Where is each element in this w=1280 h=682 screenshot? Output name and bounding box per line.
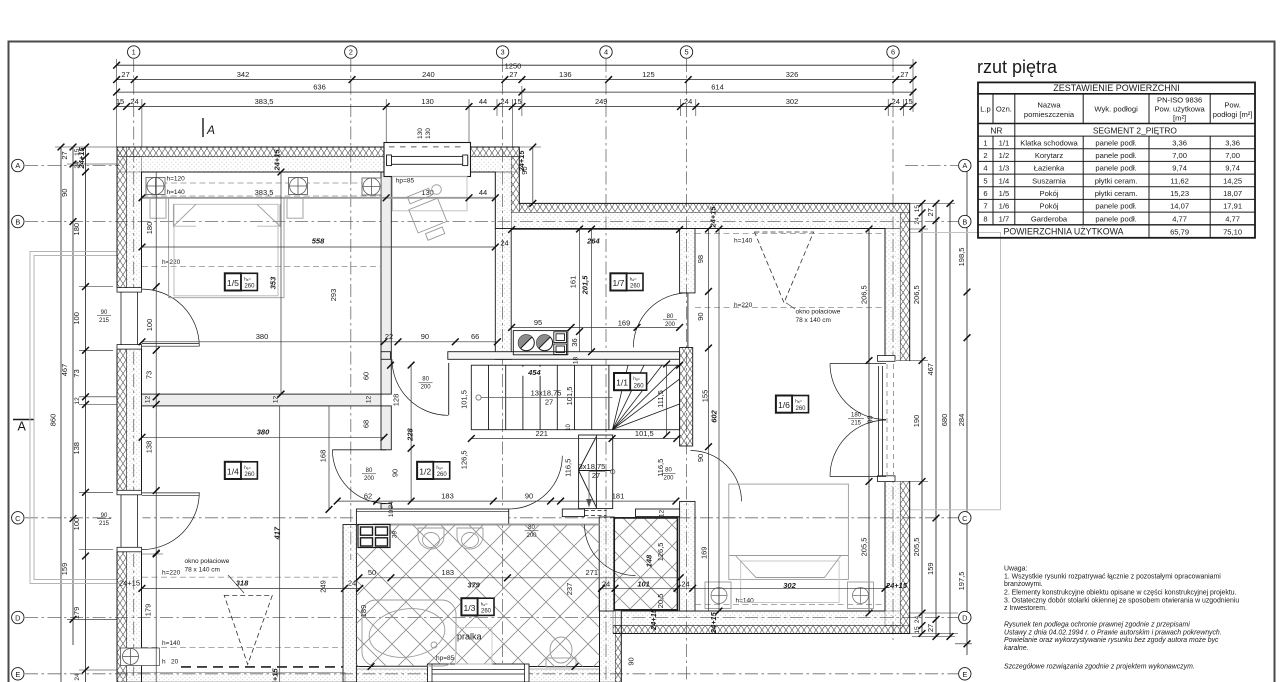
duct shaft (358, 525, 390, 548)
svg-text:180: 180 (145, 222, 154, 235)
svg-text:14,25: 14,25 (1223, 176, 1242, 185)
svg-text:rzut piętra: rzut piętra (977, 57, 1058, 77)
window W1 top wall (384, 128, 471, 211)
svg-text:1/7: 1/7 (613, 278, 625, 288)
svg-text:D: D (15, 614, 20, 623)
step wall insulation (511, 157, 519, 213)
washbasin counter room 1/7 (513, 331, 568, 355)
svg-text:E: E (962, 670, 967, 679)
svg-text:Klatka schodowa: Klatka schodowa (1020, 138, 1078, 147)
svg-text:78 x 140 cm: 78 x 140 cm (796, 317, 831, 324)
mid vertical wall below bathroom insulation (615, 626, 621, 682)
svg-text:159: 159 (926, 562, 935, 575)
svg-text:383,5: 383,5 (255, 97, 274, 106)
svg-text:27: 27 (121, 70, 129, 79)
exterior wall left insulation (117, 147, 127, 682)
svg-text:180: 180 (851, 413, 862, 419)
tile edge line bathroom top (373, 524, 599, 526)
grid bubbles top (128, 46, 900, 58)
svg-text:12: 12 (659, 510, 666, 518)
svg-text:200: 200 (665, 322, 676, 328)
svg-text:342: 342 (237, 70, 250, 79)
svg-text:panele podł.: panele podł. (1095, 138, 1136, 147)
svg-text:10: 10 (388, 510, 395, 518)
interior wall 1/5-1/4 (142, 394, 382, 406)
svg-text:NR: NR (990, 125, 1002, 135)
svg-text:9,74: 9,74 (1172, 164, 1187, 173)
toilet (546, 637, 576, 667)
svg-text:3. Ostateczny dobór stolarki o: 3. Ostateczny dobór stolarki okiennej ze… (1004, 597, 1239, 604)
svg-text:1/2: 1/2 (419, 467, 431, 477)
svg-text:24+15: 24+15 (272, 149, 281, 172)
interior dimension lines (142, 147, 885, 682)
grid line 2 (350, 59, 352, 560)
svg-text:h=140: h=140 (734, 238, 753, 245)
svg-text:Powielanie oraz wykorzystywani: Powielanie oraz wykorzystywanie rysunku … (1004, 637, 1219, 644)
svg-text:228: 228 (406, 428, 415, 442)
svg-text:24+15: 24+15 (649, 608, 658, 631)
interior wall 1/7-corridor left part (381, 352, 391, 360)
svg-text:260: 260 (437, 472, 448, 478)
svg-text:66: 66 (471, 332, 479, 341)
svg-text:130: 130 (421, 97, 434, 106)
svg-text:Suszarnia: Suszarnia (1032, 176, 1067, 185)
svg-text:17,91: 17,91 (1223, 202, 1242, 211)
svg-text:24: 24 (684, 97, 692, 106)
svg-text:13x18,75: 13x18,75 (531, 389, 562, 398)
stair walk line with arrow (476, 395, 615, 502)
area summary table (978, 82, 1255, 237)
svg-text:24+15: 24+15 (709, 611, 718, 634)
svg-text:36: 36 (570, 338, 579, 346)
svg-text:Ozn.: Ozn. (996, 105, 1012, 114)
svg-text:215: 215 (99, 521, 110, 527)
svg-text:karalne.: karalne. (1004, 645, 1029, 652)
svg-text:18: 18 (573, 357, 580, 365)
exterior wall left masonry (127, 157, 142, 682)
svg-text:24: 24 (914, 616, 921, 624)
svg-text:180: 180 (72, 223, 81, 236)
svg-text:pomieszczenia: pomieszczenia (1024, 110, 1075, 119)
column marker bottom-left (121, 648, 160, 666)
dashed height lines room 1/6 (695, 234, 885, 605)
staircase main flight (471, 365, 679, 430)
svg-text:1: 1 (132, 48, 136, 57)
grid line 6 (892, 59, 894, 640)
svg-text:15: 15 (914, 626, 921, 634)
svg-text:panele podł.: panele podł. (1095, 202, 1136, 211)
door size labels (364, 314, 862, 539)
svg-text:90: 90 (868, 416, 875, 424)
svg-text:380: 380 (257, 428, 270, 437)
svg-text:237: 237 (565, 583, 574, 596)
svg-text:271: 271 (586, 568, 599, 577)
svg-text:73: 73 (145, 371, 154, 379)
svg-text:200: 200 (663, 476, 674, 482)
svg-text:205,5: 205,5 (912, 538, 921, 557)
svg-text:1250: 1250 (505, 61, 522, 70)
svg-text:6: 6 (891, 48, 895, 57)
svg-text:pralka: pralka (457, 632, 482, 642)
svg-text:200: 200 (364, 476, 375, 482)
balcony door leaves and arcs (830, 363, 886, 365)
svg-text:24: 24 (500, 239, 508, 248)
roof window label 1/6 (786, 303, 795, 309)
svg-text:138: 138 (145, 441, 154, 454)
svg-text:100: 100 (145, 319, 154, 332)
svg-text:24: 24 (892, 97, 900, 106)
svg-text:A: A (15, 161, 20, 170)
svg-text:90: 90 (101, 513, 108, 519)
svg-text:190: 190 (912, 415, 921, 428)
svg-text:260: 260 (634, 383, 645, 389)
svg-text:hₐ=: hₐ= (795, 399, 802, 404)
interior wall stub below (381, 406, 391, 450)
svg-text:27: 27 (592, 471, 600, 480)
svg-text:128: 128 (391, 394, 400, 407)
svg-text:90: 90 (520, 166, 529, 174)
door D4 (corridor to bathroom wall) arc (509, 456, 562, 509)
svg-text:73: 73 (72, 369, 81, 377)
svg-text:2. Elementy konstrukcyjne obie: 2. Elementy konstrukcyjne obiektu opisan… (1004, 590, 1237, 597)
svg-text:20,5: 20,5 (656, 594, 665, 609)
door D9 (to bathroom) arc (585, 511, 636, 576)
section marker A left (13, 419, 34, 421)
svg-text:125: 125 (642, 70, 655, 79)
svg-text:602: 602 (710, 409, 719, 422)
svg-text:4: 4 (604, 48, 608, 57)
svg-text:148: 148 (645, 554, 654, 567)
svg-text:260: 260 (481, 609, 492, 615)
svg-text:27: 27 (926, 208, 935, 216)
svg-text:9,74: 9,74 (1225, 164, 1240, 173)
svg-text:C: C (962, 514, 968, 523)
svg-text:h 20: h 20 (162, 659, 179, 666)
svg-text:B: B (15, 218, 20, 227)
svg-text:380: 380 (256, 332, 269, 341)
svg-text:200: 200 (526, 533, 537, 539)
bathroom bottom wall masonry (356, 669, 599, 682)
svg-text:Korytarz: Korytarz (1035, 151, 1063, 160)
grid line 1 (133, 59, 135, 676)
svg-text:E: E (15, 670, 20, 679)
svg-text:206,5: 206,5 (912, 285, 921, 304)
interior wall left of 1/7 (495, 229, 511, 360)
svg-text:POWIERZCHNIA UŻYTKOWA: POWIERZCHNIA UŻYTKOWA (1004, 226, 1124, 236)
svg-text:27: 27 (900, 70, 908, 79)
svg-text:130: 130 (425, 128, 432, 139)
svg-text:12: 12 (365, 396, 372, 404)
svg-text:126,5: 126,5 (459, 450, 468, 469)
svg-text:h=120: h=120 (167, 176, 186, 183)
svg-text:24: 24 (602, 580, 610, 589)
grid bubbles left (12, 159, 24, 680)
svg-text:podłogi [m²]: podłogi [m²] (1213, 110, 1253, 119)
svg-text:111,5: 111,5 (656, 390, 665, 408)
svg-text:353: 353 (269, 276, 278, 289)
svg-text:z Inwestorem.: z Inwestorem. (1004, 605, 1047, 612)
bottom-left wall band masonry (117, 673, 345, 682)
svg-text:Wyk. podłogi: Wyk. podłogi (1094, 105, 1138, 114)
svg-text:okno połaciowe: okno połaciowe (796, 309, 841, 316)
svg-text:467: 467 (926, 363, 935, 376)
svg-text:płytki ceram.: płytki ceram. (1095, 189, 1138, 198)
svg-text:hₐ=: hₐ= (630, 277, 637, 282)
dashed height lines room 1/4 (142, 577, 343, 647)
svg-text:249: 249 (319, 580, 328, 593)
svg-text:6: 6 (983, 189, 987, 198)
svg-text:198,5: 198,5 (957, 248, 966, 267)
svg-text:80: 80 (667, 314, 674, 320)
svg-text:264: 264 (586, 237, 600, 246)
svg-text:3,36: 3,36 (1225, 138, 1240, 147)
svg-text:2: 2 (349, 48, 353, 57)
svg-text:14,07: 14,07 (1170, 202, 1189, 211)
svg-text:201,5: 201,5 (581, 275, 590, 296)
roof outline grey right (910, 233, 1001, 510)
svg-text:260: 260 (244, 284, 255, 290)
svg-text:90: 90 (60, 189, 69, 197)
top chain ticks (113, 62, 916, 110)
svg-text:Uwaga:: Uwaga: (1004, 566, 1027, 573)
svg-text:hₐ=: hₐ= (633, 376, 640, 381)
svg-text:11,62: 11,62 (1170, 176, 1188, 185)
svg-text:24: 24 (681, 580, 689, 589)
svg-text:Garderoba: Garderoba (1031, 214, 1068, 223)
svg-text:860: 860 (49, 414, 58, 427)
svg-text:75,10: 75,10 (1223, 227, 1242, 236)
svg-text:90: 90 (391, 469, 400, 477)
svg-text:260: 260 (244, 472, 255, 478)
grid line D (25, 617, 958, 619)
shower zone tiles (614, 518, 677, 610)
svg-text:12: 12 (273, 396, 280, 404)
svg-text:215: 215 (851, 421, 862, 427)
svg-text:302: 302 (783, 581, 796, 590)
svg-text:90: 90 (421, 332, 429, 341)
top extension lines (117, 59, 913, 147)
svg-text:[m²]: [m²] (1173, 114, 1186, 123)
svg-text:hₐ=: hₐ= (244, 465, 251, 470)
stair dim line 111,5 (663, 361, 670, 439)
window in bathroom bottom wall (428, 664, 530, 682)
svg-text:panele podł.: panele podł. (1095, 164, 1136, 173)
svg-text:24: 24 (914, 217, 921, 225)
left dimension chains (61, 147, 86, 682)
door D7 (1/7 to 1/6) (633, 293, 688, 348)
svg-text:116,5: 116,5 (656, 459, 665, 477)
svg-text:155: 155 (701, 390, 710, 403)
roof outline grey left (30, 252, 117, 584)
svg-text:24+15: 24+15 (77, 147, 86, 170)
svg-text:10: 10 (566, 423, 572, 430)
svg-text:90: 90 (101, 310, 108, 316)
svg-text:215: 215 (99, 318, 110, 324)
svg-text:7: 7 (983, 202, 987, 211)
svg-text:101,5: 101,5 (635, 429, 654, 438)
interior grey dim chain room 1/5 (142, 197, 495, 199)
svg-text:Pow. użytkowa: Pow. użytkowa (1154, 105, 1205, 114)
svg-text:B: B (962, 218, 967, 227)
svg-text:179: 179 (72, 607, 81, 620)
washing machine (456, 628, 493, 665)
svg-text:branżowymi.: branżowymi. (1004, 581, 1043, 588)
top dimension chains (117, 65, 913, 106)
svg-text:206,5: 206,5 (860, 285, 869, 304)
svg-text:1/4: 1/4 (227, 467, 239, 477)
svg-text:138: 138 (72, 442, 81, 455)
svg-text:4,77: 4,77 (1225, 214, 1240, 223)
svg-text:A: A (962, 161, 967, 170)
bed room 1/5 (150, 198, 303, 298)
svg-text:Pokój: Pokój (1040, 189, 1059, 198)
roof window label 1/4 (228, 575, 244, 593)
svg-text:1/2: 1/2 (999, 151, 1010, 160)
svg-text:24: 24 (500, 97, 508, 106)
svg-text:27: 27 (545, 398, 553, 407)
svg-text:467: 467 (60, 364, 69, 377)
svg-text:50: 50 (368, 568, 376, 577)
svg-text:130: 130 (417, 128, 424, 139)
svg-text:1/5: 1/5 (999, 189, 1010, 198)
svg-text:100: 100 (72, 518, 81, 531)
svg-text:1/3: 1/3 (999, 164, 1010, 173)
svg-text:Pow.: Pow. (1224, 101, 1240, 110)
svg-text:636: 636 (313, 82, 326, 91)
svg-text:Pokój: Pokój (1040, 202, 1059, 211)
svg-text:1/6: 1/6 (778, 400, 790, 410)
svg-text:221: 221 (535, 429, 548, 438)
svg-text:90: 90 (696, 312, 705, 320)
interior wall 1/7-corridor right part (448, 352, 680, 360)
top chain labels (116, 61, 913, 106)
right dimension chains (869, 166, 967, 656)
svg-text:78 x 140 cm: 78 x 140 cm (185, 567, 220, 574)
svg-text:189: 189 (359, 605, 368, 618)
svg-text:15: 15 (914, 205, 921, 213)
svg-text:183: 183 (441, 491, 454, 500)
svg-text:168: 168 (319, 450, 328, 463)
svg-text:161: 161 (568, 276, 577, 289)
svg-text:h=220: h=220 (734, 302, 753, 309)
svg-text:39: 39 (392, 531, 399, 539)
svg-text:12: 12 (74, 397, 81, 405)
svg-text:1/1: 1/1 (999, 138, 1010, 147)
svg-text:hp=85: hp=85 (396, 178, 415, 185)
svg-text:A: A (18, 420, 27, 434)
svg-text:1/3: 1/3 (464, 603, 476, 613)
staircase winders fan (613, 365, 680, 429)
staircase lower winder flight (579, 435, 613, 509)
svg-text:159: 159 (60, 563, 69, 576)
svg-text:h=220: h=220 (162, 259, 181, 266)
grid line 5 (686, 59, 688, 682)
svg-text:27: 27 (60, 151, 69, 159)
svg-text:3x18,75: 3x18,75 (579, 462, 606, 471)
svg-text:1/7: 1/7 (999, 214, 1010, 223)
bottom wall room 1/6 insulation (613, 626, 910, 634)
svg-text:24: 24 (130, 97, 138, 106)
svg-text:65,79: 65,79 (1170, 227, 1189, 236)
svg-text:panele podł.: panele podł. (1095, 214, 1136, 223)
svg-text:15: 15 (116, 97, 124, 106)
svg-text:15,23: 15,23 (1170, 189, 1189, 198)
svg-text:24+15: 24+15 (708, 206, 717, 229)
interior wall stair-1/6 masonry lower (680, 501, 695, 611)
svg-text:1/1: 1/1 (616, 378, 628, 388)
svg-text:3: 3 (501, 48, 505, 57)
svg-text:1: 1 (983, 138, 987, 147)
svg-text:SEGMENT 2_PIĘTRO: SEGMENT 2_PIĘTRO (1093, 125, 1178, 135)
svg-text:hp=85: hp=85 (436, 655, 455, 662)
svg-text:98: 98 (696, 255, 705, 263)
svg-text:169: 169 (618, 319, 631, 328)
svg-text:80: 80 (528, 525, 535, 531)
svg-text:183: 183 (442, 568, 455, 577)
svg-text:284: 284 (957, 414, 966, 427)
svg-text:95: 95 (534, 318, 542, 327)
svg-text:249: 249 (595, 97, 608, 106)
svg-text:197,5: 197,5 (957, 572, 966, 591)
step wall masonry (495, 172, 511, 229)
bathtub (362, 600, 456, 666)
svg-text:44: 44 (479, 97, 487, 106)
svg-text:24: 24 (74, 673, 81, 681)
interior wall stair-1/6 masonry upper (680, 229, 695, 293)
svg-text:15: 15 (513, 97, 521, 106)
svg-text:1/6: 1/6 (999, 202, 1010, 211)
svg-text:18,07: 18,07 (1223, 189, 1242, 198)
svg-text:62: 62 (364, 491, 372, 500)
svg-text:90: 90 (525, 491, 533, 500)
interior wall stair-1/6 insulated middle (680, 348, 693, 447)
svg-text:136: 136 (559, 70, 572, 79)
balcony door right wall 180/215 (830, 356, 911, 482)
grid line A (25, 165, 120, 167)
svg-text:3,36: 3,36 (1172, 138, 1187, 147)
bottom wall room 1/6 masonry (613, 611, 900, 626)
grid line B (25, 221, 958, 223)
interior wall bathroom-shower zone (599, 517, 614, 611)
svg-text:169: 169 (700, 547, 709, 560)
svg-text:200: 200 (421, 385, 432, 391)
exterior wall top A insulation (117, 147, 519, 157)
interior wall 1/4-bathroom (343, 525, 356, 682)
svg-text:Szczegółowe rozwiązania zgodni: Szczegółowe rozwiązania zgodnie z projek… (1004, 664, 1195, 671)
door D2 opening left wall (113, 490, 199, 552)
svg-text:PN-ISO 9836: PN-ISO 9836 (1157, 96, 1202, 105)
svg-text:1. Wszystkie rysunki rozpatryw: 1. Wszystkie rysunki rozpatrywać łącznie… (1004, 573, 1221, 580)
door D6 (corridor to 1/7) arc (392, 359, 449, 415)
svg-text:5: 5 (684, 48, 688, 57)
svg-text:Nazwa: Nazwa (1037, 101, 1061, 110)
svg-text:101,5: 101,5 (565, 387, 574, 406)
roof window triangle room 1/6 (755, 232, 814, 303)
svg-text:1/4: 1/4 (999, 176, 1010, 185)
svg-text:68: 68 (361, 420, 370, 428)
svg-text:panele podł.: panele podł. (1095, 151, 1136, 160)
svg-text:293: 293 (329, 289, 338, 302)
interior wall 1/5-corridor (381, 172, 391, 394)
svg-text:7,00: 7,00 (1172, 151, 1187, 160)
svg-text:24+15: 24+15 (119, 579, 140, 588)
svg-text:44: 44 (479, 188, 487, 197)
svg-text:80: 80 (366, 468, 373, 474)
section marker A top (202, 118, 204, 137)
svg-text:126,5: 126,5 (656, 543, 665, 562)
svg-text:454: 454 (527, 368, 541, 377)
svg-text:90: 90 (627, 657, 636, 665)
